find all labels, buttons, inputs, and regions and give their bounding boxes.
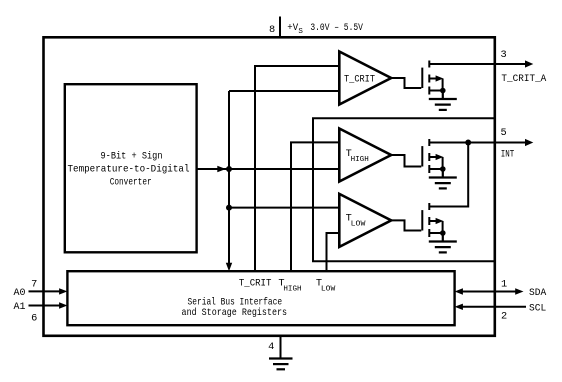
comparator T_LOW [339,194,391,247]
svg-text:T_CRIT_A: T_CRIT_A [501,73,547,85]
pin 6 lead A1 [29,305,61,307]
svg-text:HIGH: HIGH [351,156,369,164]
svg-text:+V: +V [287,22,299,34]
arrowhead A1 [59,302,67,308]
junction dot: bus/converter output [226,166,232,172]
arrowhead A0 [59,288,67,294]
arrowhead: converter output into bus [217,166,226,172]
svg-text:2: 2 [501,311,507,323]
transistor Q2 (T_HIGH, INT) [422,139,495,173]
wire: Q3 drain up to INT line [429,143,468,207]
converter text [68,150,190,188]
arrowhead pin 5 [525,139,533,146]
svg-text:6: 6 [31,313,37,325]
serial box text [182,296,288,319]
pin 1 lead SDA (bidirectional) [462,291,516,293]
wire: T_LOW setpoint from registers (x326.5) [327,233,340,271]
transistor Q1 (open-drain, T_CRIT_A) [422,61,495,95]
svg-text:3.0V – 5.5V: 3.0V – 5.5V [310,22,363,34]
svg-text:LOW: LOW [321,285,336,293]
wire: right-edge loop (y118 / x313 / y261) [313,118,495,261]
wire: bus to T_LOW plus input (y207.6) [229,207,339,209]
svg-text:9-Bit + Sign: 9-Bit + Sign [101,150,163,162]
ground (pin 4) [269,359,293,370]
pin 2 lead SCL [462,306,526,308]
wire: T_CRIT setpoint from registers (x255) [255,66,339,271]
pin 7 lead A0 [29,290,61,292]
svg-text:A1: A1 [14,301,26,313]
label T_HIGH [346,148,369,164]
arrowhead SDA right [515,288,523,294]
ground (Q3 source) [429,233,457,252]
svg-text:A0: A0 [14,287,26,299]
svg-text:LOW: LOW [351,220,366,228]
junction dot INT wired-or [465,140,471,146]
svg-text:8: 8 [269,24,275,36]
ground (Q2 source) [429,169,457,188]
svg-text:T_CRIT: T_CRIT [239,277,272,289]
Q1 source junction dot [440,88,446,94]
Q2 body arrowhead [436,154,444,160]
converter block U1 [65,84,197,252]
svg-text:5: 5 [501,127,507,139]
label +VS supply [287,22,363,36]
pin 3 lead T_CRIT_A [495,63,526,65]
arrowhead: bus into serial box [226,263,232,272]
svg-text:and Storage Registers: and Storage Registers [182,307,288,319]
arrowhead SCL [455,304,463,310]
wire: bus to T_CRIT minus input (y91) [229,90,339,92]
wire: T_LOW output to Q3 gate [391,220,421,230]
svg-text:INT: INT [501,149,515,161]
wire: converter output to T_HIGH minus input (y169) [197,168,340,170]
svg-text:4: 4 [268,341,274,353]
node label T_HIGH (register output) [278,277,301,293]
svg-text:SCL: SCL [529,302,546,314]
wire: T_CRIT output to Q1 gate [391,78,421,88]
svg-text:1: 1 [501,279,507,291]
node label T_LOW (register output) [316,277,336,293]
serial bus interface block [67,271,454,325]
svg-text:Temperature-to-Digital: Temperature-to-Digital [68,164,190,176]
junction dot: bus/T_LOW input [226,205,232,211]
wire: T_HIGH setpoint from registers (x291) [291,142,339,271]
label T_LOW [346,212,366,228]
chip boundary box [44,37,495,336]
Q1 body arrowhead [436,75,444,81]
comparator T_HIGH [339,129,391,182]
svg-text:7: 7 [31,279,37,291]
Q3 source junction dot [440,230,446,236]
svg-text:Converter: Converter [110,177,152,189]
wire: T_HIGH output to Q2 gate [391,155,421,167]
svg-text:SDA: SDA [529,287,547,299]
comparator T_CRIT [339,52,391,105]
pin 8 lead (+VS) [279,17,281,38]
svg-text:HIGH: HIGH [283,285,301,293]
wire: temperature bus vertical (x229) [228,91,230,267]
svg-text:3: 3 [501,49,507,61]
Q3 body arrowhead [436,218,444,224]
pin 5 lead INT [495,142,526,144]
pin 4 lead GND [280,336,282,359]
svg-text:T_CRIT: T_CRIT [344,73,375,85]
transistor Q3 (T_LOW) [422,203,445,237]
Q2 source junction dot [440,166,446,172]
arrowhead SDA left [455,288,463,294]
arrowhead pin 3 [525,60,533,67]
ground (Q1 source) [429,91,457,110]
svg-text:S: S [298,28,303,36]
